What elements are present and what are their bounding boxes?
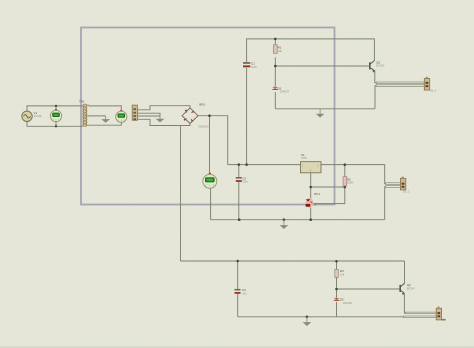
- svg-text:VSINE: VSINE: [34, 114, 42, 118]
- svg-text:BC547: BC547: [376, 64, 385, 68]
- svg-text:C3: C3: [242, 288, 246, 292]
- svg-text:10k: 10k: [340, 272, 345, 276]
- svg-text:100u: 100u: [251, 65, 257, 69]
- svg-text:BR1: BR1: [199, 102, 205, 106]
- svg-text:1N4148: 1N4148: [342, 301, 352, 305]
- svg-text:D2: D2: [340, 298, 344, 302]
- svg-text:220R: 220R: [347, 181, 353, 185]
- svg-text:10u: 10u: [242, 292, 247, 296]
- svg-text:10k: 10k: [278, 49, 283, 53]
- svg-text:TR1: TR1: [79, 99, 85, 103]
- svg-text:100n: 100n: [242, 180, 248, 184]
- svg-text:7805: 7805: [301, 156, 307, 160]
- svg-text:2W005G: 2W005G: [198, 124, 209, 128]
- svg-text:SIL-2: SIL-2: [403, 190, 410, 194]
- svg-text:BC547: BC547: [407, 286, 416, 290]
- svg-text:SIL-2: SIL-2: [430, 89, 437, 93]
- svg-text:1N4007: 1N4007: [280, 90, 290, 94]
- svg-text:RV1: RV1: [314, 192, 320, 196]
